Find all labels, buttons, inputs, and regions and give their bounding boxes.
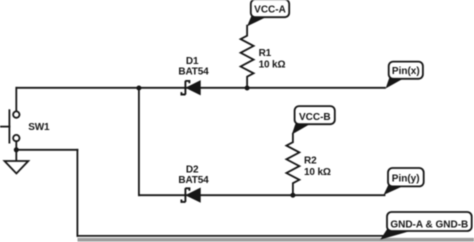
svg-text:BAT54: BAT54 [178,175,209,186]
svg-text:GND-A & GND-B: GND-A & GND-B [390,219,468,230]
net flag GND-A & GND-B [380,212,472,240]
svg-text:SW1: SW1 [28,122,50,133]
node junction on main net at vertical branch [136,86,141,91]
wire: bottom horizontal net to GND-A & GND-B [77,235,385,237]
wire: horizontal net row to Pin(y) [139,194,385,196]
net flag VCC-B [292,106,335,134]
wire: cropped gray net at bottom edge [78,238,474,242]
svg-text:BAT54: BAT54 [178,67,209,78]
label 10 kOhm value [304,167,331,178]
svg-text:10 kΩ: 10 kΩ [304,167,331,178]
resistor R2 [286,134,299,195]
wire: top-left vertical from main net down to SW1 top terminal [15,88,17,112]
svg-text:R1: R1 [259,48,272,59]
node junction of R1 on main net [245,86,250,91]
node junction of R2 on Pin(y) net [290,193,295,198]
label BAT54 value [178,67,209,78]
wire: vertical down toward bottom net [76,150,78,236]
net flag Pin(x) [386,62,423,89]
label R2 [304,155,317,166]
svg-text:VCC-A: VCC-A [254,4,286,15]
label D1 [186,56,199,67]
diode D1 BAT54 schottky [181,81,200,95]
svg-text:10 kΩ: 10 kΩ [259,59,286,70]
svg-text:D2: D2 [186,164,199,175]
svg-text:Pin(y): Pin(y) [392,173,420,184]
label D2 [186,164,199,175]
wire: vertical branch from main net down to Pin(y) row [138,88,140,195]
label R1 [259,48,272,59]
net flag Pin(y) [384,168,424,195]
node junction at SW1 ground branch [14,147,19,152]
svg-text:Pin(x): Pin(x) [392,66,420,77]
label SW1 [28,122,50,133]
ground [5,161,29,174]
svg-text:R2: R2 [304,155,317,166]
diode D2 BAT54 schottky [181,188,200,202]
svg-text:VCC-B: VCC-B [299,112,331,123]
label 10 kOhm value [259,59,286,70]
wire: horizontal from ground junction to right [16,149,77,151]
resistor R1 [241,26,254,88]
label BAT54 value [178,175,209,186]
svg-text:D1: D1 [186,56,199,67]
wire: main horizontal net row to Pin(x) [17,87,385,89]
net flag VCC-A [247,0,289,26]
switch SW1 pushbutton [0,110,20,142]
wire: SW1 bottom terminal down to ground junction [15,141,17,161]
